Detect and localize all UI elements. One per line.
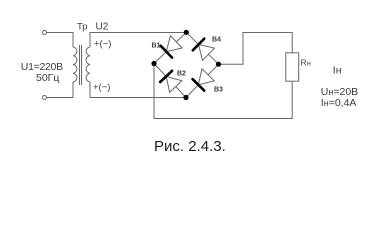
- wire bridge edge left-top: [154, 32, 186, 63]
- node left (bridge DC minus): [151, 61, 156, 66]
- transformer Tp core: [80, 45, 82, 85]
- svg-text:50Гц: 50Гц: [36, 72, 59, 84]
- transformer Tp secondary winding: [86, 47, 90, 82]
- svg-text:+(−): +(−): [94, 38, 111, 49]
- svg-text:Iн=0,4А: Iн=0,4А: [321, 97, 357, 109]
- diode B3 triangle: [198, 69, 214, 85]
- terminal input bottom: [43, 96, 47, 100]
- svg-text:Тр: Тр: [77, 21, 88, 32]
- node top (bridge AC input 1): [184, 30, 189, 35]
- svg-text:В4: В4: [212, 37, 221, 44]
- wire bridge edge bottom-right: [186, 64, 219, 97]
- svg-text:Iн: Iн: [333, 64, 342, 76]
- svg-text:+(−): +(−): [93, 82, 110, 93]
- svg-text:U2: U2: [96, 22, 109, 33]
- wire bridge edge top-right: [186, 32, 218, 64]
- diode B2 triangle: [166, 76, 182, 92]
- wire bridge edge left-bottom: [154, 64, 186, 98]
- diode B2 cathode bar: [160, 71, 172, 82]
- svg-text:В1: В1: [152, 42, 161, 49]
- diode B4 triangle: [199, 44, 215, 60]
- transformer Tp primary winding: [73, 47, 77, 82]
- terminal input top: [43, 31, 47, 35]
- diode B1 cathode bar: [161, 46, 172, 58]
- svg-text:В3: В3: [214, 87, 223, 94]
- wire secondary top lead to bridge top node: [90, 33, 186, 48]
- svg-text:Рис. 2.4.3.: Рис. 2.4.3.: [154, 138, 226, 155]
- wire primary top lead: [47, 33, 74, 48]
- diode B3 cathode bar: [193, 79, 205, 91]
- wire secondary bottom lead to bridge bottom node: [90, 82, 186, 98]
- wire right node to top rail: [219, 33, 293, 65]
- node bottom (bridge AC input 2): [183, 95, 188, 100]
- svg-text:В2: В2: [177, 71, 186, 78]
- diode B4 cathode bar: [193, 39, 205, 51]
- resistor Rn: [286, 53, 299, 81]
- svg-text:Rн: Rн: [301, 58, 311, 68]
- node right (bridge DC plus): [216, 62, 221, 67]
- wire left node to bottom rail: [154, 64, 292, 119]
- diode B1 triangle: [166, 36, 182, 52]
- wire primary bottom lead: [47, 82, 74, 98]
